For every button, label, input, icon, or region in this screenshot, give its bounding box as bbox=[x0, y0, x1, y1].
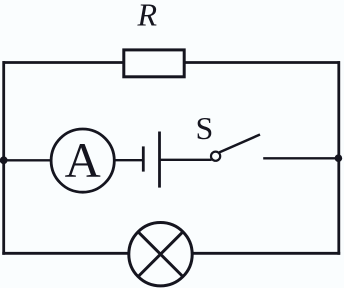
wire: top-right horizontal (resistor to right corner) bbox=[184, 61, 340, 64]
wire: battery to switch bbox=[160, 159, 212, 161]
switch S1: blade (open arm) bbox=[219, 135, 260, 153]
svg-text:A: A bbox=[65, 132, 101, 188]
wire: ammeter to battery bbox=[114, 159, 143, 161]
wire: bottom-left horizontal (left corner to lamp) bbox=[2, 252, 130, 255]
wire: left vertical bbox=[2, 61, 5, 255]
wire: bottom-right horizontal (lamp to right corner) bbox=[191, 252, 340, 255]
lamp L1: X diagonal 1 bbox=[138, 232, 183, 277]
wire: left node to ammeter bbox=[4, 159, 52, 161]
wire: switch to right node bbox=[263, 157, 339, 159]
node: left junction dot bbox=[0, 156, 8, 164]
lamp L1: X diagonal 2 bbox=[138, 232, 183, 277]
ammeter U1 (circle) bbox=[51, 129, 114, 192]
battery BT1: long plate (positive) bbox=[158, 132, 161, 188]
battery BT1: short plate (negative) bbox=[142, 146, 145, 171]
wire: right vertical bbox=[337, 61, 340, 255]
resistor R1 (box) bbox=[124, 50, 184, 77]
svg-text:R: R bbox=[137, 0, 158, 33]
node: right junction dot bbox=[335, 154, 343, 162]
lamp L1 (circle) bbox=[129, 223, 192, 286]
switch S1: pivot circle bbox=[211, 152, 220, 161]
svg-text:S: S bbox=[196, 110, 214, 146]
wire: top-left horizontal (left corner to resistor) bbox=[3, 61, 125, 64]
